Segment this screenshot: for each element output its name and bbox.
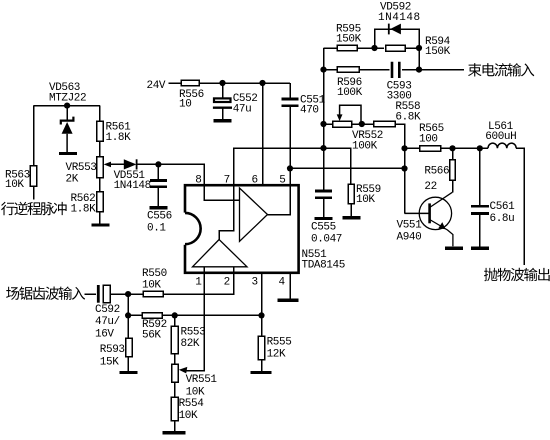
resistor R595	[337, 45, 357, 51]
wire node drop	[127, 294, 129, 315]
capacitor C551	[282, 99, 299, 106]
wire to R563	[33, 106, 35, 166]
wire R559 to ground	[350, 204, 352, 217]
wire input to C592	[85, 293, 97, 295]
ground under R555	[251, 371, 272, 374]
VR553 wiper arrow	[104, 162, 111, 168]
wire node to R550	[128, 293, 143, 295]
VR551 wiper arrow	[179, 367, 188, 374]
node VD592 left	[371, 45, 377, 51]
wire C552 to ground	[222, 108, 224, 120]
wire R553 drop	[174, 315, 176, 326]
wire R595 row	[324, 47, 338, 49]
wire to R561	[99, 106, 101, 121]
VR552 wiper arrow and link	[337, 105, 361, 124]
node R553 top	[172, 312, 178, 318]
svg-text:2K: 2K	[66, 174, 79, 186]
resistor R561	[97, 121, 103, 141]
wire C555 to ground	[323, 198, 325, 217]
ground under R593	[120, 371, 138, 374]
svg-text:1.8K: 1.8K	[106, 132, 132, 144]
svg-text:16V: 16V	[95, 329, 114, 341]
wire R596-C593	[359, 69, 390, 71]
wire R594 right	[405, 47, 420, 49]
wire R592 to pin3 node	[162, 314, 262, 316]
svg-text:C561: C561	[490, 201, 516, 213]
resistor R563	[30, 166, 36, 187]
svg-text:5: 5	[279, 174, 285, 186]
wire pin7 internal	[219, 185, 234, 239]
svg-text:82K: 82K	[181, 338, 200, 350]
wire R555 to ground	[261, 360, 263, 371]
text 束电流输入 input	[468, 63, 534, 76]
svg-text:150K: 150K	[336, 34, 362, 46]
wire VR551-R554	[174, 382, 176, 397]
node pin5 row right	[401, 165, 407, 171]
svg-text:C555: C555	[311, 222, 336, 234]
svg-text:0.047: 0.047	[311, 234, 342, 246]
svg-text:R566: R566	[424, 166, 449, 178]
node VR552 right link	[359, 121, 365, 127]
wire R550 to pin2	[163, 273, 234, 294]
resistor R553	[171, 326, 178, 354]
diode VD592	[389, 24, 401, 35]
resistor R556	[181, 80, 199, 86]
svg-text:22: 22	[424, 181, 436, 193]
node VD563 junction	[64, 103, 70, 109]
wire pin8 internal	[204, 185, 239, 200]
svg-text:R553: R553	[181, 327, 206, 339]
potentiometer VR551	[172, 364, 179, 382]
svg-text:R550: R550	[142, 268, 167, 280]
capacitor C556	[150, 181, 167, 187]
resistor R596	[337, 67, 359, 73]
capacitor C555	[315, 191, 332, 198]
node rail-pin7 row	[320, 145, 326, 151]
op-amp A (top) inside IC	[240, 188, 268, 241]
wire to R593	[127, 315, 129, 338]
transistor V551 A940	[405, 192, 453, 246]
ground under R559	[342, 216, 360, 219]
svg-text:V551: V551	[397, 220, 423, 232]
svg-text:10K: 10K	[186, 387, 205, 399]
svg-text:TDA8145: TDA8145	[302, 260, 345, 272]
svg-text:7: 7	[224, 174, 230, 186]
svg-text:150K: 150K	[425, 46, 451, 58]
node C561 top	[477, 145, 483, 151]
wire C551 to pin5 node	[289, 106, 291, 169]
node rail-VR552	[320, 121, 326, 127]
wire wiper to VD551	[111, 163, 124, 165]
svg-text:3: 3	[252, 277, 258, 289]
resistor R593	[126, 338, 133, 356]
wire 24V rail	[199, 82, 290, 84]
inductor L561	[488, 143, 516, 148]
wire right branch down	[418, 48, 420, 70]
svg-text:2: 2	[224, 277, 230, 289]
wire to C552	[222, 83, 224, 97]
wire R566 drop	[452, 148, 454, 159]
node C592-R550	[125, 291, 131, 297]
svg-text:4: 4	[279, 277, 286, 289]
wire C593 to beam input	[402, 69, 464, 71]
ground under C556	[150, 206, 168, 209]
wire R553-VR551	[174, 354, 176, 365]
wire R565 to L561	[441, 147, 489, 149]
resistor R554	[171, 397, 178, 420]
wire pin2 internal	[233, 267, 235, 273]
resistor R565	[420, 146, 441, 152]
ground under R554	[163, 431, 186, 434]
wire pin3 to R555	[261, 273, 263, 337]
svg-text:R593: R593	[100, 344, 125, 356]
svg-text:10K: 10K	[5, 179, 24, 191]
svg-text:6.8K: 6.8K	[395, 112, 421, 124]
svg-text:VR551: VR551	[186, 374, 218, 386]
svg-text:10K: 10K	[179, 410, 198, 422]
svg-text:R554: R554	[179, 398, 205, 410]
wire C556 to ground	[157, 187, 159, 206]
svg-text:10: 10	[179, 99, 191, 111]
potentiometer VR552	[333, 121, 352, 127]
ground under pin4	[278, 299, 299, 302]
svg-text:A940: A940	[397, 232, 422, 244]
wire left rail vertical	[323, 48, 325, 191]
wire VR552-R558	[352, 123, 374, 125]
ground under C555	[314, 217, 332, 220]
svg-text:10K: 10K	[142, 280, 161, 292]
wire top-left rail	[34, 105, 100, 107]
wire VR552 row left	[324, 123, 333, 125]
capacitor C592 electrolytic	[98, 285, 110, 303]
potentiometer VR553	[97, 157, 103, 178]
wire R565 row	[405, 147, 420, 149]
wire R593 to ground	[127, 357, 129, 371]
node beam junction	[416, 67, 422, 73]
wire VD592 branch	[375, 29, 420, 48]
svg-text:24V: 24V	[147, 80, 166, 92]
ground under C552	[213, 119, 231, 122]
svg-text:100K: 100K	[352, 141, 378, 153]
wire C561 drop	[479, 148, 481, 206]
wire rail corner to C551	[289, 83, 291, 99]
node R565 left	[401, 145, 407, 151]
ground under VD563	[59, 152, 77, 155]
wire R563 to input	[33, 186, 35, 199]
svg-text:C556: C556	[147, 211, 172, 223]
wire pin1 to VR551 wiper	[186, 267, 204, 371]
capacitor C593	[392, 62, 399, 78]
diode VD551	[124, 159, 137, 169]
wire R554 to ground	[174, 421, 176, 431]
zener diode VD563	[61, 117, 74, 152]
svg-text:12K: 12K	[267, 349, 286, 361]
svg-text:1: 1	[195, 277, 202, 289]
resistor R559	[348, 184, 354, 203]
svg-text:470: 470	[300, 105, 319, 117]
resistor R594	[386, 45, 406, 51]
wire R561-VR553	[99, 141, 101, 157]
svg-text:15K: 15K	[100, 357, 119, 369]
svg-text:100: 100	[419, 134, 438, 146]
wire zener drop	[66, 106, 68, 121]
wire pin5 row	[290, 167, 405, 169]
text 抛物波输出 output	[484, 268, 550, 281]
svg-text:VR553: VR553	[66, 162, 97, 174]
svg-text:600uH: 600uH	[485, 131, 516, 143]
capacitor C561	[471, 206, 489, 213]
text 场锯齿波输入 input	[6, 286, 85, 299]
text 行逆程脉冲 input	[1, 202, 67, 215]
op-amp B (bottom) inside IC	[193, 240, 248, 267]
node R592 left	[125, 312, 131, 318]
node C552 junction	[219, 80, 225, 86]
resistor R562	[97, 192, 103, 212]
ground under R562	[91, 223, 109, 226]
node pin6 junction	[259, 80, 265, 86]
svg-text:8: 8	[195, 174, 201, 186]
wire VD551 to pin8	[137, 164, 205, 185]
svg-text:0.1: 0.1	[147, 223, 166, 235]
svg-text:R555: R555	[267, 337, 292, 349]
wire R558 to corner	[395, 124, 405, 148]
wire node to R592	[128, 314, 142, 316]
wire 24V to R556	[169, 82, 182, 84]
wire VR553-R562	[99, 178, 101, 192]
svg-text:56K: 56K	[142, 330, 161, 342]
wire R595-R594	[357, 47, 384, 49]
resistor R566	[450, 160, 456, 181]
node C556 junction	[155, 161, 161, 167]
resistor R555	[258, 336, 265, 359]
wire C561 to ground	[479, 213, 481, 247]
resistor R592	[142, 313, 162, 319]
wire L561 to output	[516, 148, 524, 265]
svg-text:10K: 10K	[356, 194, 375, 206]
svg-text:6.8u: 6.8u	[490, 213, 515, 225]
wire pin 6 to rail	[262, 83, 264, 185]
resistor R550	[143, 291, 163, 297]
ground under C561	[471, 247, 489, 250]
wire C592 to node	[110, 293, 128, 295]
resistor R558	[374, 121, 396, 127]
svg-text:47u: 47u	[233, 104, 252, 116]
IC N551 TDA8145 body	[183, 185, 299, 273]
capacitor C552 electrolytic	[213, 98, 232, 107]
svg-text:47u/: 47u/	[95, 316, 120, 328]
svg-text:1.8K: 1.8K	[71, 204, 97, 216]
svg-text:6: 6	[252, 174, 258, 186]
node pin5-C551	[287, 165, 293, 171]
wire pin4 to ground	[289, 273, 291, 299]
svg-text:1N4148: 1N4148	[378, 12, 421, 24]
node rail-R596	[320, 67, 326, 73]
node pin3-R555	[258, 312, 264, 318]
node R566 top	[449, 145, 455, 151]
svg-text:C592: C592	[95, 304, 120, 316]
wire R562 to ground	[99, 212, 101, 224]
wire R566 to collector	[452, 180, 454, 192]
node VD592 right	[416, 45, 422, 51]
wire x404 vertical	[404, 124, 406, 213]
wire C555 drop	[323, 148, 325, 191]
svg-text:1N4148: 1N4148	[114, 180, 151, 192]
svg-text:100K: 100K	[337, 87, 363, 99]
wire R596 row left	[324, 69, 338, 71]
wire junction to C556	[157, 164, 159, 180]
wire op-amp A output to pin5	[268, 168, 291, 214]
ground under V551	[445, 247, 463, 250]
wire pin7 riser	[234, 148, 351, 185]
